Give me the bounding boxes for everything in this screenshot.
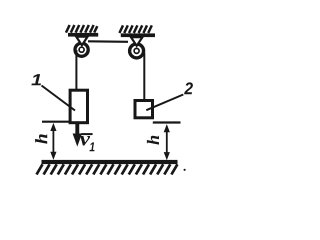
speck right of ground	[184, 169, 186, 171]
right pulley hub	[134, 48, 139, 53]
left h arrow up head	[50, 123, 56, 131]
left label h	[35, 134, 47, 144]
mass 2 (body)	[135, 101, 153, 118]
rope between pulleys	[88, 40, 128, 43]
right pulley wheel	[130, 44, 144, 58]
velocity arrow v1 (head)	[73, 134, 82, 147]
right measurement tick	[153, 121, 181, 123]
label v1 (letter v)	[80, 136, 90, 146]
left ceiling bar	[68, 33, 98, 37]
left pulley bracket (triangle)	[76, 37, 87, 46]
left pulley hub	[79, 47, 84, 52]
right h arrow down head	[164, 152, 170, 160]
left measurement tick	[42, 121, 70, 123]
leader line for label 2	[146, 95, 183, 111]
leader line for label 1	[42, 86, 76, 111]
label 2	[184, 82, 193, 94]
left h dimension arrow (shaft)	[52, 126, 54, 156]
right ceiling hatching	[119, 25, 151, 33]
left ceiling hatching	[66, 25, 97, 33]
right pulley bracket (triangle)	[131, 37, 142, 46]
right h arrow up head	[164, 124, 170, 132]
ground hatching	[37, 164, 178, 174]
left h arrow down head	[50, 152, 56, 160]
label 1	[31, 74, 41, 85]
right rope down to mass 2	[143, 53, 145, 100]
mass 1 (body)	[70, 90, 87, 123]
left pulley wheel	[75, 43, 88, 56]
right label h	[147, 136, 159, 145]
right ceiling bar	[121, 33, 155, 37]
label v1 (subscript 1)	[90, 142, 95, 151]
ground bar	[42, 160, 178, 164]
velocity arrow v1 (shaft)	[75, 124, 79, 136]
left rope down to mass 1	[75, 50, 77, 90]
label v1 overbar	[81, 133, 92, 135]
right h dimension arrow (shaft)	[166, 127, 168, 156]
